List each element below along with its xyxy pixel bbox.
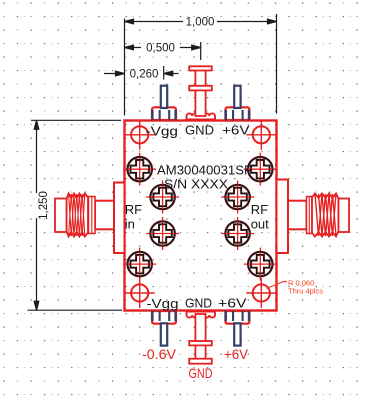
svg-text:-Vgg: -Vgg — [147, 296, 179, 311]
svg-text:RF: RF — [125, 202, 142, 217]
screw A1 — [123, 153, 156, 186]
corner hole bottom-right — [246, 278, 276, 308]
right SMA threaded barrel — [312, 194, 339, 237]
module body — [125, 121, 277, 311]
dimension 1,250 — [28, 120, 123, 310]
svg-text:-0.6V: -0.6V — [142, 346, 177, 362]
screw A2 — [244, 153, 277, 186]
top left pin -Vgg — [152, 86, 176, 121]
dimension 0,500 — [125, 42, 201, 60]
corner hole bottom-left — [125, 278, 155, 308]
svg-text:Thru 4plcs: Thru 4plcs — [288, 287, 323, 296]
screw B1 — [146, 181, 179, 214]
svg-text:GND: GND — [185, 296, 212, 311]
svg-text:-Vgg: -Vgg — [146, 124, 179, 139]
dimension 1,000 — [125, 14, 277, 116]
screw C1 — [146, 217, 179, 250]
bottom GND connector — [187, 312, 216, 364]
top GND connector — [187, 66, 216, 119]
left SMA shoulder rings — [89, 197, 96, 234]
svg-text:+6V: +6V — [218, 296, 247, 311]
left SMA threaded barrel — [67, 194, 89, 237]
screw C2 — [221, 217, 254, 250]
svg-text:+6V: +6V — [224, 346, 249, 362]
svg-text:0,260: 0,260 — [130, 69, 159, 81]
bottom left pin -0.6V — [152, 311, 176, 346]
screw D1 — [123, 248, 156, 281]
svg-text:in: in — [125, 217, 135, 232]
right SMA flange — [277, 180, 289, 254]
right SMA neck — [288, 201, 307, 230]
svg-text:out: out — [251, 217, 269, 232]
svg-text:+6V: +6V — [222, 123, 250, 138]
corner hole top-right — [246, 120, 276, 150]
svg-text:GND: GND — [189, 365, 213, 381]
svg-text:0,500: 0,500 — [146, 43, 175, 55]
svg-text:1,250: 1,250 — [38, 191, 50, 220]
left SMA neck — [95, 201, 114, 230]
screw B2 — [221, 181, 254, 214]
corner hole top-left — [125, 120, 155, 150]
svg-text:1,000: 1,000 — [186, 17, 215, 29]
left SMA flange — [114, 183, 125, 254]
svg-text:S/N XXXX: S/N XXXX — [164, 177, 228, 192]
dimension 0,260 — [104, 66, 179, 80]
bottom right pin +6V — [225, 311, 249, 346]
svg-text:RF: RF — [251, 202, 268, 217]
right SMA shoulder rings — [307, 197, 313, 234]
svg-text:AM30040031SF: AM30040031SF — [157, 163, 252, 178]
top right pin +6V — [225, 86, 249, 121]
annotation leader — [267, 282, 288, 289]
right SMA end cap — [339, 199, 350, 233]
svg-text:GND: GND — [185, 123, 214, 138]
screw D2 — [244, 248, 277, 281]
left SMA end cap — [55, 199, 67, 233]
